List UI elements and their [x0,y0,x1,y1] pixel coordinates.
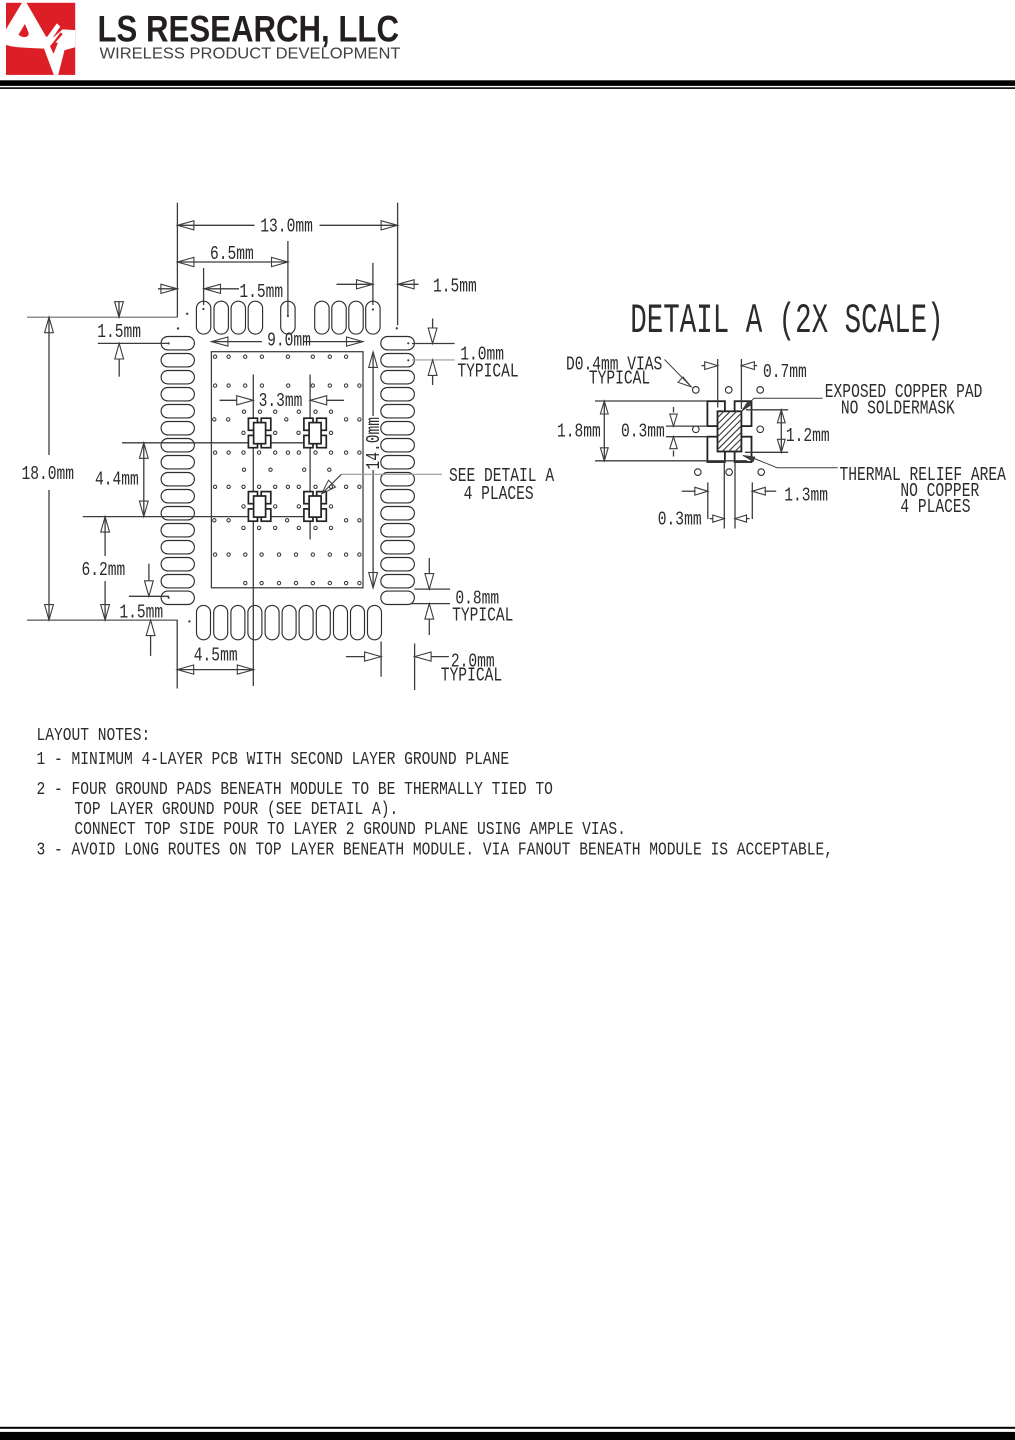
dim 1.5mm top-left arrows [158,288,177,290]
footer rule thin [0,1427,1015,1429]
svg-text:TYPICAL: TYPICAL [589,369,650,390]
svg-text:1 - MINIMUM 4-LAYER PCB WITH S: 1 - MINIMUM 4-LAYER PCB WITH SECOND LAYE… [37,750,510,771]
dim 2.0mm extension lines [380,642,382,677]
svg-text:4 PLACES: 4 PLACES [464,484,534,505]
dim 6.2mm line [104,517,106,556]
leader to pad corner [754,397,823,399]
dim 1.0mm typical lines [412,343,455,345]
dim 1.5mm top-right arrows [337,283,374,285]
dim 0.3mm mid arrows [673,407,675,413]
svg-text:3 - AVOID LONG ROUTES ON TOP L: 3 - AVOID LONG ROUTES ON TOP LAYER BENEA… [37,840,834,861]
left pad column [161,337,194,350]
svg-text:2 - FOUR GROUND PADS BENEATH M: 2 - FOUR GROUND PADS BENEATH MODULE TO B… [37,779,553,800]
svg-text:0.7mm: 0.7mm [763,362,807,383]
svg-text:TYPICAL: TYPICAL [457,362,518,383]
dim 1.2mm line [780,410,782,453]
svg-text:18.0mm: 18.0mm [22,465,75,486]
svg-text:0.3mm: 0.3mm [621,422,665,443]
svg-text:4.5mm: 4.5mm [194,646,238,667]
footer rule thick [0,1432,1015,1440]
module right edge extension line [397,203,399,326]
inner ground pour rectangle [211,352,363,588]
dim 0.3mm mid extension lines [666,425,707,427]
pad1 extension line [203,268,205,305]
svg-text:CONNECT TOP SIDE POUR TO LAYER: CONNECT TOP SIDE POUR TO LAYER 2 GROUND … [74,820,625,841]
dim 3.3mm arrows and label [220,399,237,401]
header rule thick [0,80,1015,86]
svg-text:6.2mm: 6.2mm [82,560,126,581]
ground pad top-left [248,418,270,447]
dim 4.4mm lower extension line [83,516,325,518]
svg-text:4 PLACES: 4 PLACES [900,497,970,518]
svg-text:TOP LAYER GROUND POUR (SEE DET: TOP LAYER GROUND POUR (SEE DETAIL A). [74,799,398,820]
module left edge extension line [176,203,178,318]
detail thermal relief squares [707,401,725,426]
dim 0.8mm typical lines [415,588,451,590]
dim 0.3mm bottom extension lines [723,462,725,528]
svg-text:LAYOUT NOTES:: LAYOUT NOTES: [37,725,151,746]
dim 1.5mm left-upper reference line [98,342,169,344]
dim 0.7mm extension lines [717,359,719,408]
svg-text:9.0mm: 9.0mm [267,331,311,352]
svg-text:14.0mm: 14.0mm [364,417,385,470]
dim 4.4mm line [143,443,145,517]
header rule thin [0,87,1015,89]
svg-text:TYPICAL: TYPICAL [452,606,513,627]
detail exposed copper pad (hatched) [718,411,742,451]
dim 1.3mm arrows [682,490,696,492]
dim 1.5mm bottom-left reference line [129,595,169,597]
svg-text:WIRELESS PRODUCT DEVELOPMENT: WIRELESS PRODUCT DEVELOPMENT [100,46,401,63]
svg-text:DETAIL A (2X SCALE): DETAIL A (2X SCALE) [630,298,943,345]
dim 1.8mm line [603,401,605,461]
dim 1.5mm left-upper arrows [115,302,124,318]
dim 1.3mm extension lines [707,482,709,519]
svg-text:1.8mm: 1.8mm [557,422,601,443]
leader to relief notch [777,467,838,469]
dim 4.5mm line [177,669,254,671]
dim 13.0mm line [177,224,254,226]
svg-text:13.0mm: 13.0mm [260,217,313,238]
svg-text:1.5mm: 1.5mm [239,283,283,304]
svg-text:1.2mm: 1.2mm [786,426,830,447]
dim 1.2mm extension lines [746,409,788,411]
dim 4.5mm extension line [176,620,178,688]
dim 9.0mm line [211,341,262,343]
dim 14.0mm line [372,352,374,416]
dim 1.5mm bottom-left arrows [148,564,150,581]
via field [213,355,216,358]
leader SEE DETAIL A [341,473,442,475]
dim 1.8mm extension lines [595,400,707,402]
corner reference dots [186,313,188,315]
dim 0.3mm bottom arrows [710,518,713,520]
ground pad top-right [304,418,326,447]
dim 18.0mm line [48,317,50,455]
pad9 extension line [372,263,374,305]
svg-text:TYPICAL: TYPICAL [441,666,502,687]
svg-text:1.3mm: 1.3mm [784,486,828,507]
dim 0.7mm arrows [702,365,706,367]
dim 6.5mm line [177,261,288,263]
top pad row [196,301,210,334]
svg-text:LS RESEARCH, LLC: LS RESEARCH, LLC [98,8,400,50]
svg-text:0.3mm: 0.3mm [658,510,702,531]
dim 4.4mm upper extension line [122,442,325,444]
ground pad bottom-right [304,492,326,522]
dim 3.3mm extension lines [252,375,254,419]
svg-text:6.5mm: 6.5mm [210,244,254,265]
LS Research logo red square [6,3,75,75]
module top edge extension line [27,316,178,318]
svg-text:3.3mm: 3.3mm [259,391,303,412]
svg-text:4.4mm: 4.4mm [95,470,139,491]
svg-text:1.5mm: 1.5mm [97,322,141,343]
svg-text:1.5mm: 1.5mm [119,603,163,624]
svg-text:NO SOLDERMASK: NO SOLDERMASK [841,399,956,420]
svg-text:1.5mm: 1.5mm [433,277,477,298]
module bottom edge extension line [27,619,178,621]
detail vias [693,387,700,394]
leader to via [665,360,690,386]
bottom pad row [197,605,211,639]
right pad column [381,337,415,350]
ground pad bottom-left [248,492,270,522]
center top pad extension line [287,241,289,316]
dim 2.0mm arrows [346,656,365,658]
